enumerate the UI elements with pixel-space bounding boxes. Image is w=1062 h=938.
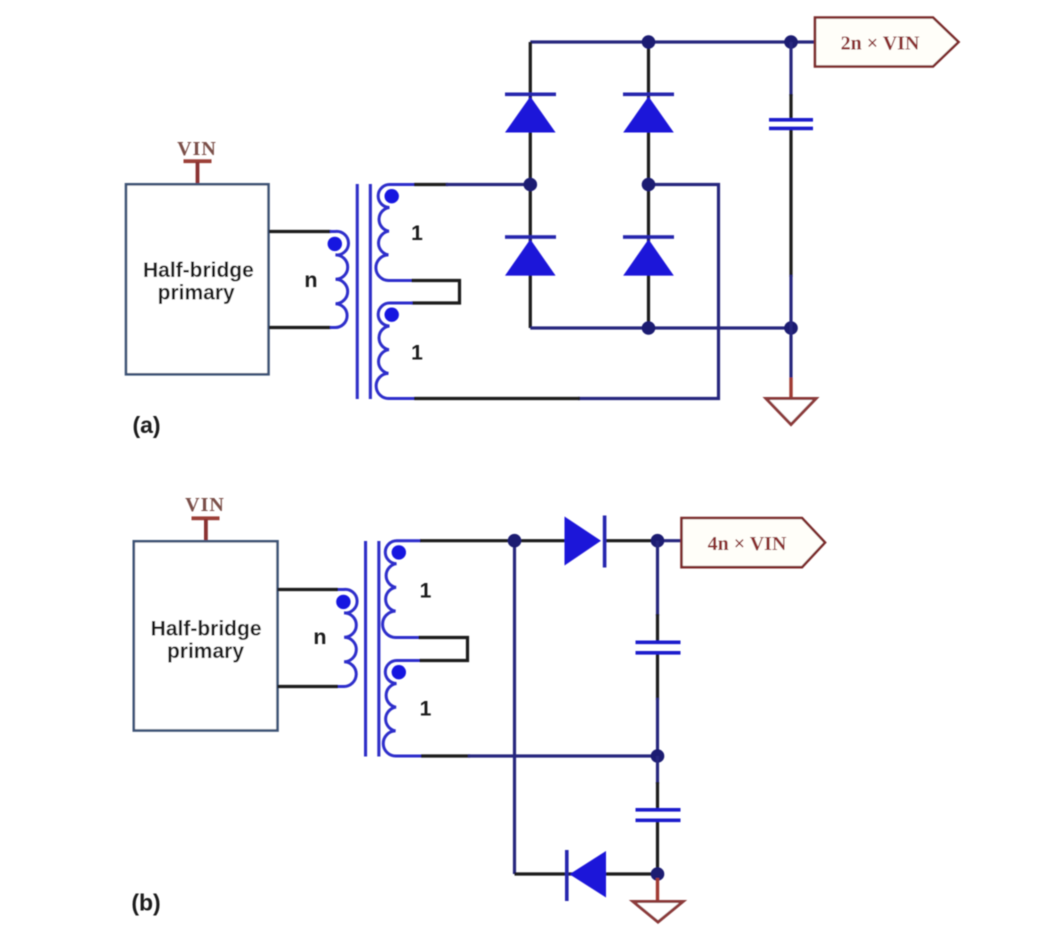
wire capacitor C2 to midpoint (b) [656,655,659,701]
label Half-bridge primary (a) [143,259,254,305]
transformer T1 primary winding (a) [330,231,349,327]
ground symbol (b) [633,902,683,923]
svg-text:VIN: VIN [185,494,225,516]
power symbol VIN (a) [177,138,217,185]
wire secondary bottom lead to capacitor midpoint (b) [421,754,470,757]
wire top rail (a) [530,40,815,43]
ground symbol (a) [766,399,816,425]
wire bridge leg 1 vertical (a) [529,42,532,328]
wire capacitor C3 to ground rail (b) [656,822,659,874]
half-bridge primary block (a) [126,184,269,374]
svg-text:primary: primary [167,640,244,663]
svg-text:4n × VIN: 4n × VIN [708,533,787,555]
wire primary top lead (a) [269,230,331,233]
svg-text:2n × VIN: 2n × VIN [841,33,920,55]
wire capacitor branch lower (b) [656,756,659,784]
capacitor C1 (a) [769,118,813,130]
diode D6 shunt (b) [565,850,606,901]
svg-text:1: 1 [411,342,423,365]
wire center link of secondary (a) [412,281,460,304]
svg-text:(b): (b) [131,890,160,916]
phase dot secondary 1 (a) [385,189,399,203]
svg-text:1: 1 [411,222,423,245]
wire bottom rail (a) [530,326,791,329]
power symbol VIN (b) [185,494,225,542]
transformer T2 core (b) [364,541,380,757]
junction dot top rail left branch (b) [508,534,522,548]
wire ground stem (a) [789,328,792,378]
junction dot top rail cap branch (b) [651,534,665,548]
junction dot bottom rail leg2 (a) [642,321,656,335]
wire left vertical branch (b) [513,541,516,874]
wire primary top lead (b) [278,588,339,591]
wire bridge leg 2 vertical (a) [647,42,650,328]
phase dot secondary 2 (b) [392,665,406,679]
transformer T2 primary winding (b) [338,589,357,686]
svg-text:Half-bridge: Half-bridge [143,259,254,282]
wire primary bottom lead (a) [269,326,331,329]
wire secondary bottom lead (a) [414,397,580,400]
label Half-bridge primary (b) [151,617,262,663]
phase dot primary (a) [328,237,342,251]
wire bridge leg 2 midpoint to return loop (a) [578,185,719,399]
svg-text:n: n [304,268,317,292]
junction dot ground node (b) [651,867,665,881]
diode D5 series (b) [565,516,607,568]
wire center link of secondary (b) [419,638,468,661]
diode D3 lower-left (a) [505,235,556,275]
half-bridge primary block (b) [134,541,278,730]
junction dot leg1 midpoint (a) [524,178,538,192]
svg-text:1: 1 [420,698,432,721]
output flag 2n x VIN (a) [815,18,959,67]
wire bottom rail (b) [515,872,658,875]
phase dot secondary 1 (b) [392,545,406,559]
svg-text:primary: primary [158,282,235,305]
wire capacitor branch upper (b) [656,541,659,616]
junction dot top rail leg2 (a) [642,35,656,49]
wire secondary top lead to bridge leg 1 midpoint (a) [414,183,448,186]
junction dot bottom rail cap (a) [784,321,798,335]
wire capacitor branch lower (a) [789,130,792,277]
capacitor C3 (b) [636,808,681,822]
transformer T1 secondary winding 2 (a) [376,303,414,399]
svg-text:n: n [313,625,326,649]
diode D4 lower-right (a) [623,235,674,275]
wire ground stem (b) [656,878,659,901]
phase dot secondary 2 (a) [385,308,399,322]
svg-text:VIN: VIN [177,138,217,160]
transformer T2 secondary winding 1 (b) [383,541,421,638]
output flag 4n x VIN (b) [682,518,826,567]
wire capacitor branch upper (a) [789,42,792,96]
phase dot primary (b) [336,595,350,609]
junction dot leg2 midpoint (a) [642,178,656,192]
junction dot top rail cap (a) [784,35,798,49]
transformer T2 secondary winding 2 (b) [383,660,421,756]
junction dot capacitor midpoint (b) [651,749,665,763]
diode D1 upper-left (a) [505,93,556,133]
svg-text:1: 1 [420,580,432,603]
capacitor C2 (b) [636,641,681,655]
transformer T1 core (a) [356,184,372,399]
diode D2 upper-right (a) [623,93,674,133]
svg-text:(a): (a) [132,412,160,438]
wire secondary top lead / top rail (b) [420,539,565,542]
wire primary bottom lead (b) [278,685,339,688]
transformer T1 secondary winding 1 (a) [376,184,414,280]
svg-text:Half-bridge: Half-bridge [151,617,262,640]
